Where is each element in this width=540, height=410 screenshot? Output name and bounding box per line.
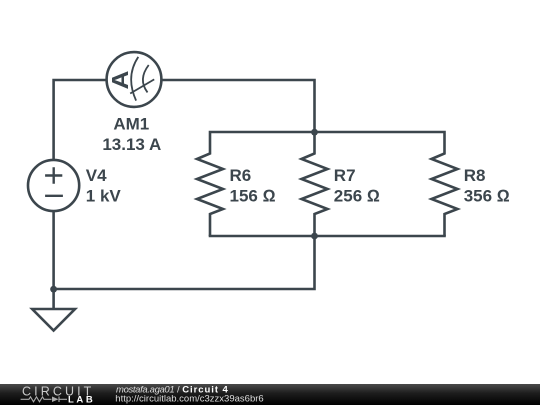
wire bottom rail: [209, 235, 446, 238]
wire from ammeter left to V4 top: [54, 80, 107, 161]
svg-text:V4: V4: [86, 166, 107, 185]
junction node at bottom rail: [311, 233, 318, 240]
V4 minus sign: [45, 195, 63, 197]
junction node at ground wire: [50, 286, 57, 293]
svg-text:256 Ω: 256 Ω: [334, 187, 380, 206]
svg-text:AM1: AM1: [113, 115, 149, 134]
resistor R6, top rail, resistor R8: [197, 132, 458, 236]
svg-text:R8: R8: [464, 166, 486, 185]
logo diode: [52, 397, 59, 403]
ground symbol: [32, 309, 75, 331]
svg-text:R7: R7: [334, 166, 356, 185]
svg-text:1 kV: 1 kV: [86, 187, 122, 206]
V4 plus sign: [45, 167, 62, 183]
ammeter scale arc 2: [143, 65, 149, 92]
svg-text:LAB: LAB: [68, 394, 95, 405]
resistor R7 and wire down to ground rail: [54, 132, 328, 289]
junction node at top rail: [311, 129, 318, 136]
svg-text:http://circuitlab.com/c3zzx39a: http://circuitlab.com/c3zzx39as6br6: [115, 393, 263, 404]
ammeter scale arc 1: [131, 57, 138, 101]
ammeter needle: [130, 79, 154, 93]
svg-text:A: A: [107, 71, 133, 90]
svg-text:356 Ω: 356 Ω: [464, 187, 510, 206]
wire V4 bottom to ground: [52, 211, 55, 309]
logo squiggle resistor: [21, 397, 52, 402]
wire ammeter right to top-rail junction: [161, 80, 315, 132]
voltage source V4 circle: [28, 160, 79, 211]
svg-text:156 Ω: 156 Ω: [230, 187, 276, 206]
svg-text:R6: R6: [230, 166, 252, 185]
ammeter AM1 circle: [107, 52, 162, 107]
svg-text:13.13 A: 13.13 A: [102, 135, 161, 154]
